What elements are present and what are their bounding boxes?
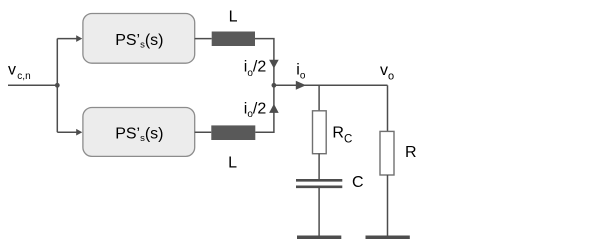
wire capacitor to ground bbox=[318, 188, 320, 236]
svg-text:PS’s(s): PS’s(s) bbox=[115, 126, 163, 144]
wire junction down to RC bbox=[318, 85, 320, 111]
arrow i_o right bbox=[296, 81, 306, 90]
block PS1 PS'_s(s) top bbox=[83, 14, 195, 64]
resistor R bbox=[380, 131, 394, 175]
inductor L2 bbox=[211, 125, 255, 140]
svg-text:R: R bbox=[405, 144, 417, 161]
svg-text:PS’s(s): PS’s(s) bbox=[115, 32, 163, 50]
wire R to ground bbox=[387, 175, 389, 236]
wire input v_c,n horizontal bbox=[8, 84, 57, 86]
wire RC to capacitor bbox=[318, 154, 320, 179]
wire L2 to corner up to junction bbox=[255, 85, 274, 132]
wire output horizontal to v_o bbox=[274, 84, 388, 86]
ground under R bbox=[366, 236, 410, 240]
svg-text:C: C bbox=[352, 174, 364, 191]
inductor L1 bbox=[212, 32, 255, 47]
wire v_o down to R bbox=[387, 85, 389, 131]
svg-text:L: L bbox=[228, 155, 237, 172]
wire L1 to corner down to junction bbox=[255, 39, 274, 86]
wire into bottom block bbox=[57, 131, 77, 133]
arrow i_o/2 down bbox=[269, 60, 279, 69]
capacitor C bbox=[296, 180, 342, 187]
junction input split bbox=[55, 83, 60, 88]
wire top block to L1 bbox=[195, 38, 212, 40]
arrow i_o/2 up bbox=[269, 104, 279, 113]
resistor RC bbox=[313, 111, 327, 154]
ground under C bbox=[297, 236, 341, 240]
arrow into top block bbox=[76, 35, 82, 42]
svg-text:L: L bbox=[229, 9, 238, 26]
svg-text:io/2: io/2 bbox=[244, 100, 267, 120]
block PS2 PS'_s(s) bottom bbox=[83, 108, 195, 157]
wire vertical split bbox=[56, 39, 58, 133]
wire into top block bbox=[57, 38, 77, 40]
arrow into bottom block bbox=[76, 129, 82, 136]
junction output node bbox=[272, 83, 277, 88]
wire bottom block to L2 bbox=[195, 131, 212, 133]
